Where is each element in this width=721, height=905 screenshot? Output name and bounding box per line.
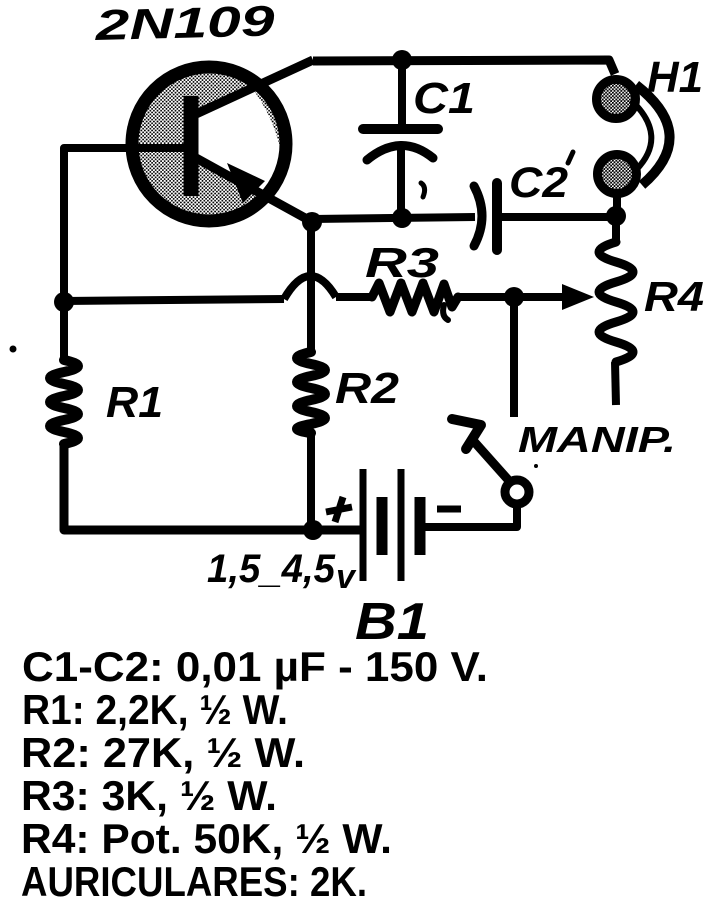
svg-text:v: v — [336, 558, 357, 596]
svg-text:C1-C2: 0,01 µF - 150 V.: C1-C2: 0,01 µF - 150 V. — [22, 643, 488, 690]
wiper arrow wire into R4 — [514, 293, 566, 301]
dot above C2 label — [568, 152, 573, 163]
node base/R1/R3 junction — [54, 292, 74, 312]
potentiometer R4 bottom lead — [615, 362, 616, 405]
svg-text:R1: R1 — [106, 378, 163, 427]
svg-text:MANIP.: MANIP. — [518, 419, 676, 460]
transistor Q1 body fill — [137, 72, 281, 216]
transistor Q1 collector lead — [196, 60, 313, 114]
battery minus sign — [437, 506, 461, 513]
wire hop to R3 — [336, 293, 372, 301]
switch MANIP pivot circle — [505, 480, 529, 504]
stray mark tick under R3 right end — [443, 305, 448, 320]
svg-text:R1: 2,2K, ½ W.: R1: 2,2K, ½ W. — [22, 686, 288, 733]
potentiometer R4 body — [599, 242, 633, 362]
switch MANIP handle — [452, 419, 481, 449]
svg-text:R2: 27K, ½ W.: R2: 27K, ½ W. — [21, 729, 305, 776]
wire R3 to junction — [458, 293, 514, 301]
node H1/C2/R4 junction — [606, 206, 626, 226]
capacitor C1 top lead — [398, 60, 406, 129]
wire C2 to H1/R4 junction — [499, 213, 612, 221]
wire H1 to junction — [613, 195, 621, 214]
wire hop over emitter branch — [284, 276, 336, 299]
battery B1 plate short 1 — [377, 497, 388, 555]
svg-text:2N109: 2N109 — [94, 0, 276, 50]
wire R1 bottom to battery plus — [64, 442, 360, 530]
transistor Q1 emitter arrow (PNP) — [227, 163, 265, 203]
stray dot near MANIP — [534, 464, 538, 468]
resistor R3 — [372, 283, 458, 312]
battery B1 plate long 1 — [360, 469, 367, 581]
battery plus sign — [326, 497, 352, 522]
transistor Q1 emitter lead — [196, 158, 316, 224]
transistor Q1 white wedge between leads — [197, 88, 283, 204]
svg-text:H1: H1 — [647, 53, 703, 102]
stray dot left margin — [10, 346, 17, 353]
wire switch to battery minus — [424, 503, 517, 527]
wiper arrowhead — [562, 284, 594, 310]
svg-text:R2: R2 — [335, 364, 400, 413]
wire emitter junction down to R2 — [307, 222, 315, 354]
svg-text:C1: C1 — [413, 74, 475, 123]
wire emitter row to C2 — [312, 217, 475, 219]
headphone H1 top earpiece — [600, 83, 632, 115]
headband outer arc — [636, 85, 670, 185]
svg-text:1,5_4,5: 1,5_4,5 — [207, 547, 336, 591]
headphone H1 bottom earpiece — [601, 158, 633, 190]
capacitor C1 curved plate — [367, 145, 433, 160]
svg-text:R4: Pot. 50K, ½ W.: R4: Pot. 50K, ½ W. — [21, 815, 392, 862]
wire R1 top lead — [60, 302, 68, 363]
capacitor C1 flat plate — [363, 124, 438, 134]
resistor R2 — [297, 352, 325, 433]
node emitter junction — [302, 212, 322, 232]
svg-text:R3: 3K, ½ W.: R3: 3K, ½ W. — [21, 772, 277, 819]
stray mark comma near C1 lead — [421, 183, 425, 197]
capacitor C1 bottom lead — [397, 148, 405, 218]
wire R2 bottom lead — [307, 432, 315, 530]
svg-text:R4: R4 — [644, 273, 704, 320]
wire base to left — [64, 148, 186, 302]
wire junction to hop — [64, 299, 284, 301]
capacitor C2 curved plate — [474, 186, 482, 246]
svg-text:AURICULARES: 2K.: AURICULARES: 2K. — [21, 858, 367, 905]
resistor R1 — [50, 360, 78, 444]
node R2/bottom wire junction — [303, 520, 323, 540]
potentiometer R4 top lead — [612, 216, 620, 244]
headband inner arc — [631, 100, 651, 170]
wire collector to top rail — [313, 60, 615, 74]
transistor Q1 base bar — [184, 96, 199, 196]
battery B1 plate short 2 — [415, 497, 426, 555]
wire junction down to switch — [510, 297, 518, 417]
svg-text:R3: R3 — [365, 239, 439, 286]
node C1 top junction — [392, 50, 412, 70]
transistor Q1 outline — [132, 67, 286, 221]
node C1 bottom junction — [392, 208, 412, 228]
node R3/switch junction — [504, 287, 524, 307]
switch MANIP lever — [470, 437, 511, 483]
svg-text:C2: C2 — [509, 159, 568, 207]
battery B1 plate long 2 — [398, 469, 405, 581]
capacitor C2 flat plate — [492, 183, 502, 250]
